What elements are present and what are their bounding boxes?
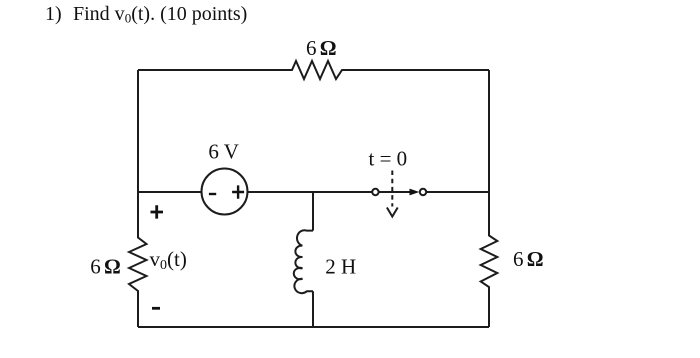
svg-text:6 Ω: 6 Ω	[90, 254, 121, 278]
svg-text:1): 1)	[45, 3, 62, 25]
svg-text:t = 0: t = 0	[369, 147, 408, 171]
svg-text:6 Ω: 6 Ω	[513, 247, 544, 271]
svg-text:Find v0(t). (10 points): Find v0(t). (10 points)	[73, 3, 247, 26]
svg-text:6 Ω: 6 Ω	[306, 36, 337, 60]
svg-text:6 V: 6 V	[208, 139, 239, 163]
svg-text:2 H: 2 H	[325, 255, 356, 279]
svg-text:v0(t): v0(t)	[150, 247, 187, 273]
